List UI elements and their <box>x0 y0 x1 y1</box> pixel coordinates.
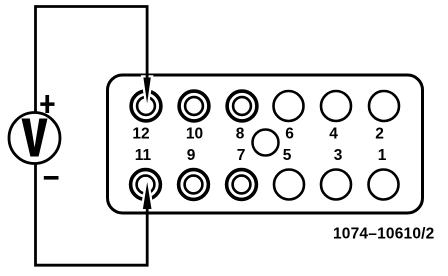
voltmeter V1 body <box>9 113 60 164</box>
pin 9 socket (double ring) <box>179 170 209 200</box>
svg-text:1074–10610/2: 1074–10610/2 <box>333 226 435 243</box>
center keying hole <box>253 130 279 156</box>
svg-text:4: 4 <box>329 126 338 143</box>
white clearance for probe arrow at pin 12 <box>143 78 150 104</box>
pin 11 socket (double ring) <box>131 170 161 200</box>
svg-text:12: 12 <box>132 126 149 143</box>
svg-text:7: 7 <box>237 147 246 164</box>
plus terminal label <box>40 95 54 113</box>
minus terminal label <box>44 176 59 180</box>
pin 1 socket <box>369 170 399 200</box>
connector housing outline <box>108 75 423 213</box>
pin 2 socket <box>369 91 399 121</box>
svg-text:5: 5 <box>283 147 292 164</box>
svg-text:8: 8 <box>236 126 245 143</box>
probe arrowhead into pin 12 <box>143 78 150 104</box>
svg-text:1: 1 <box>378 147 387 164</box>
pin 5 socket <box>274 170 304 200</box>
svg-text:10: 10 <box>186 126 203 143</box>
pin 7 socket (double ring) <box>227 170 257 200</box>
pin 12 socket (double ring) <box>131 91 161 121</box>
svg-text:9: 9 <box>187 147 196 164</box>
pin 6 socket <box>274 91 304 121</box>
wire from voltmeter + terminal to pin 12 <box>36 7 148 113</box>
svg-text:3: 3 <box>334 147 343 164</box>
wire from voltmeter - terminal to pin 11 <box>36 163 148 265</box>
svg-text:11: 11 <box>135 147 152 164</box>
pin 4 socket <box>321 91 351 121</box>
probe arrowhead into pin 11 <box>143 182 152 209</box>
pin 8 socket (double ring) <box>227 91 257 121</box>
voltmeter V letter <box>22 119 48 157</box>
white clearance for probe arrow at pin 11 <box>143 182 152 209</box>
svg-text:6: 6 <box>285 126 294 143</box>
pin 3 socket <box>321 170 351 200</box>
svg-text:2: 2 <box>375 126 384 143</box>
pin 10 socket (double ring) <box>179 91 209 121</box>
